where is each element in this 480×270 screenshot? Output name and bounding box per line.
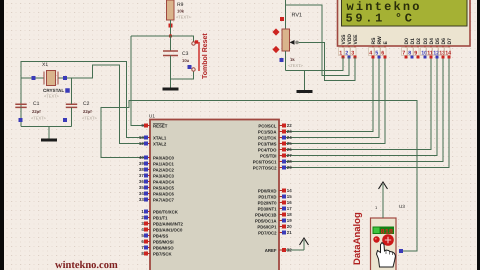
svg-text:U3: U3 — [399, 204, 405, 209]
capacitor C3 — [163, 51, 178, 56]
svg-text:18: 18 — [287, 212, 292, 217]
U3 display — [373, 227, 395, 235]
svg-text:PC5/TDI: PC5/TDI — [260, 153, 276, 158]
wire E to PC3 — [284, 57, 385, 144]
node RV1 top marker — [280, 17, 284, 21]
wire VSS RV1-bottom net — [286, 57, 343, 71]
U3 body — [371, 218, 397, 270]
ground crystal — [48, 126, 50, 140]
crystal X1 — [47, 71, 56, 86]
svg-text:D7: D7 — [447, 38, 453, 45]
svg-text:X1: X1 — [42, 62, 48, 68]
wire XTAL2 net — [65, 65, 144, 144]
wire AREF — [284, 249, 304, 251]
svg-text:<TEXT>: <TEXT> — [82, 116, 98, 121]
MCU U1 body — [150, 120, 279, 270]
node crystal pad right — [63, 76, 67, 80]
LCD body — [338, 0, 471, 46]
U3 hand cursor — [377, 243, 396, 268]
svg-text:PC0/SCL: PC0/SCL — [258, 123, 277, 128]
node U3 pin2 marker — [399, 249, 403, 253]
svg-text:16: 16 — [287, 200, 292, 205]
wire C3 to ground — [170, 56, 172, 88]
power AREF — [303, 240, 305, 250]
svg-text:<TEXT>: <TEXT> — [176, 15, 192, 20]
svg-text:33: 33 — [139, 197, 144, 202]
svg-text:PB4/SS: PB4/SS — [153, 233, 168, 238]
wire junction to button top — [171, 36, 194, 42]
svg-text:PD1/TXD: PD1/TXD — [258, 194, 276, 199]
wire RESET riser — [131, 36, 144, 126]
wire D7 to PC7 — [284, 57, 449, 168]
svg-text:37: 37 — [139, 173, 144, 178]
wire left leg gap — [20, 104, 22, 126]
node reset junction — [169, 34, 172, 37]
U3 knob left — [373, 236, 379, 242]
button top terminal — [192, 42, 195, 45]
MCU left pins — [146, 125, 150, 127]
node C2 bottom — [63, 118, 67, 122]
svg-text:10k: 10k — [177, 9, 185, 14]
node RV1 probe bottom — [272, 46, 279, 53]
svg-text:C2: C2 — [83, 101, 90, 107]
right black edge — [477, 0, 480, 270]
svg-text:PD6/ICP1: PD6/ICP1 — [257, 224, 277, 229]
wire cap bottoms — [21, 125, 72, 127]
svg-text:CRYSTAL: CRYSTAL — [43, 88, 64, 93]
wire D4 to PC4 — [284, 57, 431, 150]
svg-text:PD0/RXD: PD0/RXD — [258, 188, 277, 193]
ground VSS — [304, 71, 306, 92]
svg-text:20: 20 — [287, 224, 292, 229]
svg-text:U1: U1 — [149, 114, 155, 119]
svg-text:PD4/OC1B: PD4/OC1B — [255, 212, 277, 217]
svg-text:38: 38 — [139, 167, 144, 172]
svg-text:15: 15 — [287, 194, 292, 199]
svg-text:PC4/TDO: PC4/TDO — [258, 147, 277, 152]
wire D5 to PC5 — [284, 57, 437, 156]
LCD screen — [342, 0, 468, 26]
svg-text:PA1/ADC1: PA1/ADC1 — [153, 161, 175, 166]
svg-text:21: 21 — [287, 230, 292, 235]
node R9 bottom marker — [169, 24, 173, 28]
node RV1 probe top — [272, 28, 279, 35]
svg-text:PB1/T1: PB1/T1 — [153, 215, 168, 220]
wire XTAL1 net top — [21, 62, 144, 138]
svg-text:34: 34 — [139, 191, 144, 196]
svg-text:28: 28 — [287, 159, 292, 164]
svg-text:<TEXT>: <TEXT> — [44, 94, 60, 99]
svg-text:PC3/TMS: PC3/TMS — [258, 141, 277, 146]
wire VDD rail — [286, 5, 349, 76]
potentiometer RV1 — [282, 29, 290, 51]
svg-text:59.1 °C: 59.1 °C — [346, 12, 413, 26]
wire button bottom — [171, 71, 194, 79]
svg-text:29: 29 — [287, 165, 292, 170]
wire U3 pin1 — [382, 195, 384, 218]
svg-text:17: 17 — [287, 206, 292, 211]
svg-text:<TEXT>: <TEXT> — [288, 63, 304, 68]
svg-text:23: 23 — [287, 129, 292, 134]
svg-text:PA0/ADC0: PA0/ADC0 — [153, 155, 175, 160]
svg-text:35: 35 — [139, 185, 144, 190]
ground reset — [170, 87, 172, 89]
wire D6 to PC6 — [284, 57, 443, 162]
button bottom terminal — [192, 68, 195, 71]
svg-text:14: 14 — [287, 188, 292, 193]
wire crystal left — [21, 77, 44, 79]
svg-text:PC7/TOSC2: PC7/TOSC2 — [253, 165, 277, 170]
wire R9 to junction — [170, 20, 172, 36]
capacitor C2 — [66, 104, 77, 107]
svg-text:PC2/TCK: PC2/TCK — [258, 135, 277, 140]
button actuator — [198, 42, 200, 71]
wire VEE to wiper — [297, 42, 355, 80]
node RV1 bottom marker — [280, 58, 284, 62]
svg-text:PA7/ADC7: PA7/ADC7 — [153, 197, 175, 202]
svg-text:VEE: VEE — [353, 34, 359, 45]
svg-text:27: 27 — [287, 153, 292, 158]
svg-text:PB5/MOSI: PB5/MOSI — [153, 239, 174, 244]
wire RS to PC1 — [284, 57, 373, 132]
wire PA0 to U3 — [101, 101, 417, 252]
U3 knob right — [382, 234, 394, 246]
svg-text:C1: C1 — [33, 101, 40, 107]
wire crystal right — [58, 77, 65, 79]
svg-text:25: 25 — [287, 141, 292, 146]
svg-text:1k: 1k — [290, 57, 295, 62]
svg-text:PB7/SCK: PB7/SCK — [153, 251, 173, 256]
svg-text:C3: C3 — [182, 51, 189, 57]
wire RV1 bottom — [285, 51, 287, 71]
svg-text:36: 36 — [139, 179, 144, 184]
svg-text:22pf: 22pf — [83, 109, 92, 114]
svg-text:XTAL1: XTAL1 — [153, 135, 167, 140]
svg-text:32: 32 — [287, 248, 292, 253]
svg-text:PA4/ADC4: PA4/ADC4 — [153, 179, 175, 184]
svg-text:R9: R9 — [177, 2, 184, 8]
svg-text:PC1/SDA: PC1/SDA — [258, 129, 277, 134]
svg-text:13: 13 — [139, 135, 144, 140]
svg-text:12: 12 — [139, 141, 144, 146]
svg-text:RESET: RESET — [153, 123, 168, 128]
svg-text:22pf: 22pf — [32, 109, 41, 114]
wire junction to C3 — [170, 36, 172, 51]
svg-text:PB3/AIN1/OC0: PB3/AIN1/OC0 — [153, 227, 183, 232]
resistor R9 — [167, 0, 175, 20]
svg-text:PA5/ADC5: PA5/ADC5 — [153, 185, 175, 190]
svg-text:PD2/INT0: PD2/INT0 — [258, 200, 277, 205]
svg-text:22: 22 — [287, 123, 292, 128]
svg-text:DataAnalog: DataAnalog — [352, 212, 363, 265]
svg-text:Tombol Reset: Tombol Reset — [201, 33, 209, 79]
wire RV1 top — [285, 0, 287, 29]
svg-text:PD3/INT1: PD3/INT1 — [258, 206, 277, 211]
svg-text:wintekno.com: wintekno.com — [55, 260, 118, 270]
svg-text:PD7/OC2: PD7/OC2 — [258, 230, 277, 235]
svg-text:10u: 10u — [182, 58, 190, 63]
svg-text:<TEXT>: <TEXT> — [31, 116, 47, 121]
svg-text:39: 39 — [139, 161, 144, 166]
svg-text:26: 26 — [287, 147, 292, 152]
svg-text:19: 19 — [287, 218, 292, 223]
svg-text:AREF: AREF — [265, 248, 277, 253]
node crystal pad left — [32, 76, 36, 80]
wire RW to PC2 — [284, 57, 379, 138]
svg-text:XTAL2: XTAL2 — [153, 141, 167, 146]
svg-text:PA6/ADC6: PA6/ADC6 — [153, 191, 175, 196]
svg-text:PD5/OC1A: PD5/OC1A — [255, 218, 277, 223]
power U3 — [382, 184, 384, 195]
svg-text:RV1: RV1 — [292, 13, 303, 19]
svg-text:40: 40 — [139, 155, 144, 160]
svg-text:24: 24 — [287, 135, 292, 140]
svg-text:PB2/AIN0/INT2: PB2/AIN0/INT2 — [153, 221, 183, 226]
svg-text:D2: D2 — [416, 38, 422, 45]
MCU right pins — [279, 125, 284, 127]
svg-text:PB0/T0/XCK: PB0/T0/XCK — [153, 209, 179, 214]
left black edge — [0, 0, 4, 270]
wire junction left — [131, 35, 171, 37]
node C1 bottom — [19, 118, 23, 122]
capacitor C1 — [15, 104, 26, 107]
svg-text:PA2/ADC2: PA2/ADC2 — [153, 167, 175, 172]
svg-text:PB6/MISO: PB6/MISO — [153, 245, 174, 250]
node crystal text marker — [65, 88, 70, 93]
svg-text:PC6/TOSC1: PC6/TOSC1 — [253, 159, 277, 164]
svg-text:PA3/ADC3: PA3/ADC3 — [153, 173, 175, 178]
wire right leg — [71, 78, 73, 126]
